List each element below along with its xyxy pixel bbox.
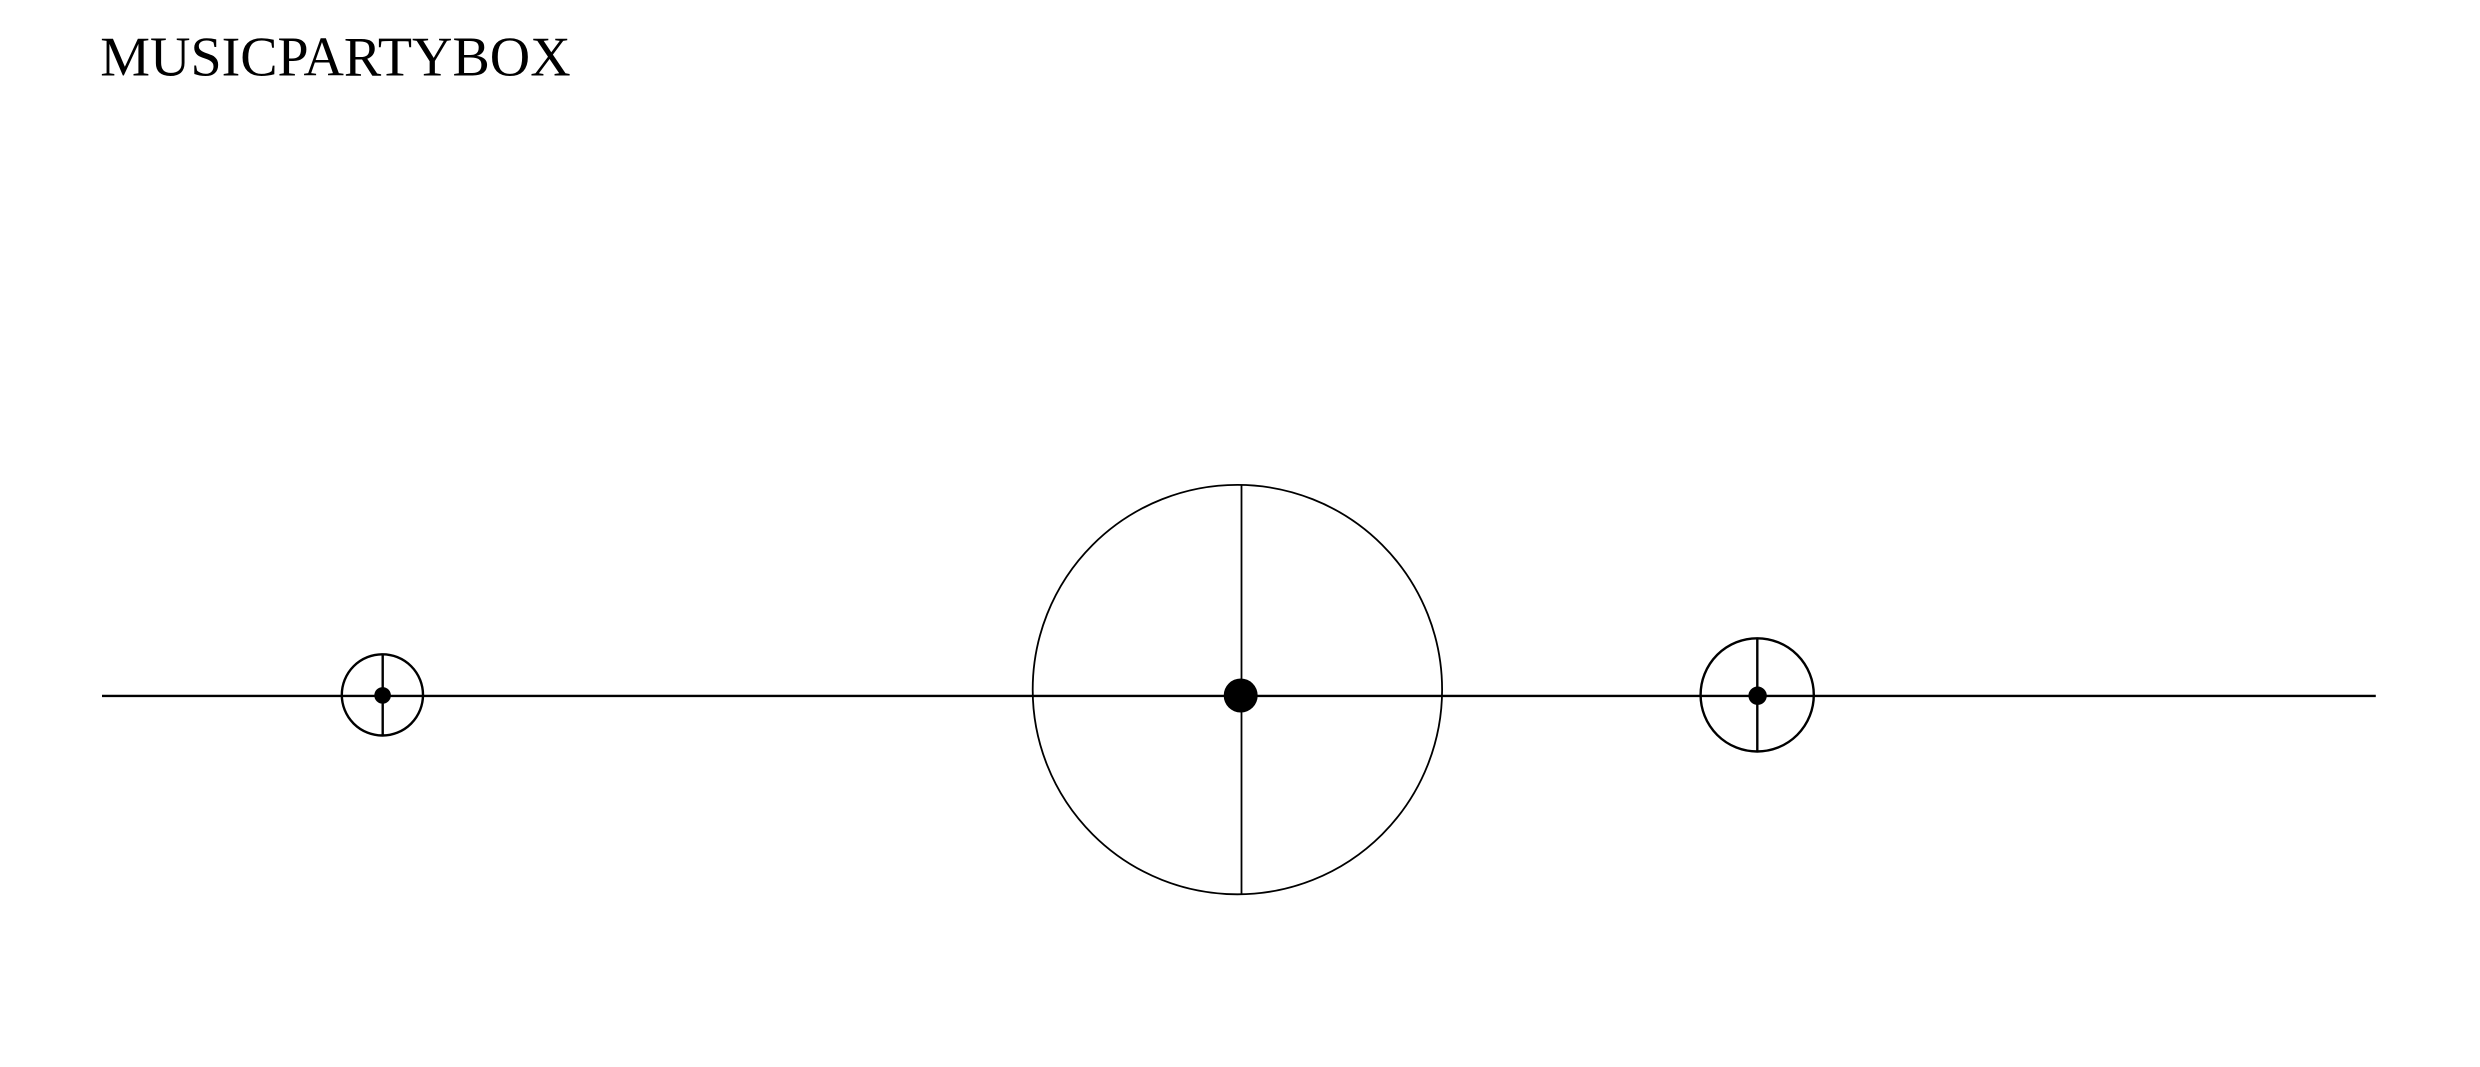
circle A center dot: [374, 687, 391, 704]
circle B outline: [1033, 485, 1442, 894]
circle B center dot: [1224, 679, 1258, 713]
circle C vertical diameter: [1756, 638, 1758, 752]
circle A outline: [342, 654, 423, 735]
circle B vertical diameter: [1241, 485, 1243, 894]
svg-text:MUSICPARTYBOX: MUSICPARTYBOX: [100, 27, 570, 89]
circle C outline: [1701, 638, 1814, 751]
axis line: [102, 695, 2376, 697]
circle C center dot: [1748, 687, 1766, 705]
circle A vertical diameter: [382, 654, 384, 735]
